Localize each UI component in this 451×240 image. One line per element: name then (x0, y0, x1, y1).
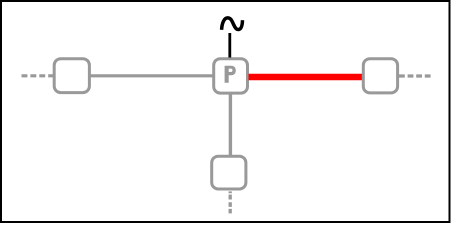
wire: left dashed stub (22, 74, 55, 77)
node C (bottom bus box) (212, 156, 246, 189)
wire: P box to bottom box (229, 94, 232, 156)
node A (left bus box) (54, 59, 89, 93)
wire: black source lead (228, 33, 231, 58)
wire: red line P box to right box (249, 74, 364, 81)
node P (center bus box) (214, 59, 248, 93)
wire: right dashed stub (399, 74, 431, 77)
AC source tilde symbol (222, 18, 243, 30)
wire: left box to P box (89, 74, 214, 77)
node B (right bus box) (363, 59, 397, 93)
label P (225, 66, 236, 83)
wire: bottom dashed stub (229, 191, 232, 213)
